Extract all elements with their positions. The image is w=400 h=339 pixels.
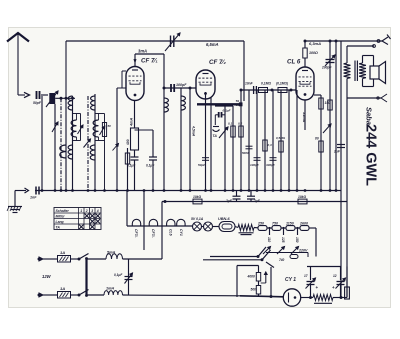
svg-text:25: 25 [236, 103, 240, 107]
svg-text:100pF: 100pF [250, 163, 259, 167]
svg-text:0,5MΩ: 0,5MΩ [276, 136, 286, 140]
svg-text:+: + [316, 285, 319, 290]
svg-text:110: 110 [267, 237, 271, 242]
svg-text:CL6: CL6 [169, 229, 173, 236]
svg-text:2: 2 [85, 209, 88, 213]
svg-text:CF7⁄₂: CF7⁄₂ [151, 229, 155, 238]
svg-text:100Ω: 100Ω [309, 51, 318, 55]
svg-text:5V 0,1A: 5V 0,1A [191, 217, 204, 221]
svg-text:0,2: 0,2 [238, 122, 243, 126]
svg-text:250: 250 [257, 221, 264, 225]
svg-text:1150: 1150 [286, 221, 294, 225]
svg-text:4,5mA: 4,5mA [192, 125, 196, 137]
svg-text:(0,1MΩ): (0,1MΩ) [276, 82, 288, 86]
svg-text:31mA: 31mA [302, 112, 306, 123]
svg-text:220V: 220V [298, 249, 308, 253]
svg-text:300pF: 300pF [266, 163, 275, 167]
svg-text:400: 400 [126, 139, 130, 145]
svg-text:1A: 1A [60, 286, 65, 291]
svg-text:0,1μF: 0,1μF [114, 273, 123, 277]
svg-text:0,1μF: 0,1μF [223, 109, 231, 113]
svg-text:50pF: 50pF [33, 101, 42, 105]
svg-text:2μF: 2μF [225, 199, 233, 203]
svg-text:Schalter: Schalter [56, 209, 70, 213]
svg-text:CF7⁄₁: CF7⁄₁ [134, 229, 138, 238]
svg-text:3: 3 [91, 209, 93, 213]
svg-text:TA: TA [56, 225, 61, 229]
svg-text:80: 80 [315, 137, 319, 141]
svg-text:10nF: 10nF [245, 82, 254, 86]
svg-text:244 GWL: 244 GWL [363, 124, 379, 186]
svg-text:3mA: 3mA [138, 49, 147, 54]
svg-text:+: + [332, 285, 335, 290]
svg-text:UBN-6: UBN-6 [218, 217, 230, 221]
svg-text:6,5mA: 6,5mA [206, 42, 219, 47]
svg-text:10kΩ: 10kΩ [298, 195, 307, 199]
svg-text:4: 4 [96, 209, 99, 213]
svg-text:125: 125 [281, 237, 285, 243]
svg-text:6,3mA: 6,3mA [309, 41, 321, 46]
svg-text:0,1: 0,1 [228, 122, 233, 126]
svg-text:12: 12 [333, 274, 337, 278]
svg-text:1A: 1A [60, 250, 65, 255]
svg-text:4mA: 4mA [130, 118, 134, 127]
svg-text:12W: 12W [42, 274, 52, 279]
svg-text:5mH: 5mH [107, 251, 115, 255]
svg-text:10kΩ: 10kΩ [193, 195, 202, 199]
svg-text:CF 7⁄₂: CF 7⁄₂ [209, 59, 226, 66]
svg-text:CL 6: CL 6 [287, 59, 301, 66]
svg-text:1mH: 1mH [106, 287, 114, 291]
svg-text:1nF: 1nF [30, 196, 37, 200]
svg-text:CF 7⁄₁: CF 7⁄₁ [141, 58, 158, 65]
svg-text:CY 1: CY 1 [285, 277, 296, 283]
svg-text:17: 17 [304, 274, 308, 278]
svg-text:2μF: 2μF [253, 199, 261, 203]
svg-text:5000: 5000 [242, 151, 249, 155]
svg-text:TA: TA [213, 134, 218, 138]
svg-text:CY1: CY1 [179, 229, 183, 236]
svg-text:Lang: Lang [56, 220, 65, 224]
svg-text:2600: 2600 [299, 221, 308, 225]
svg-text:500: 500 [251, 288, 257, 292]
svg-text:200pF: 200pF [321, 66, 333, 70]
svg-text:Mittel: Mittel [56, 214, 65, 218]
svg-text:740: 740 [279, 258, 285, 262]
svg-text:4000: 4000 [247, 275, 256, 279]
svg-text:Saba: Saba [365, 107, 374, 125]
svg-text:150: 150 [295, 237, 299, 243]
svg-text:50pF: 50pF [198, 163, 205, 167]
svg-text:2μF: 2μF [333, 150, 341, 154]
svg-text:750: 750 [272, 221, 278, 225]
svg-text:100pF: 100pF [176, 83, 187, 87]
svg-text:50: 50 [108, 124, 112, 128]
svg-text:0,1MΩ: 0,1MΩ [261, 82, 271, 86]
svg-text:0,3: 0,3 [268, 143, 273, 147]
svg-text:1: 1 [80, 209, 82, 213]
svg-text:0,1μF: 0,1μF [146, 164, 155, 168]
